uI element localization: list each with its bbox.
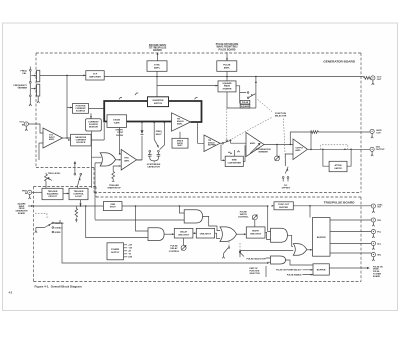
- svg-text:ONE-SHOT: ONE-SHOT: [200, 233, 212, 235]
- svg-text:BOARD: BOARD: [373, 275, 381, 278]
- wire note to pulse ampl: [226, 52, 228, 61]
- buffer 2 A14: [313, 264, 329, 275]
- pulse selector switch S8: [222, 242, 244, 259]
- vernier arrow through ampl: [250, 144, 260, 154]
- svg-text:SELECTOR: SELECTOR: [250, 273, 261, 275]
- svg-text:OFFSET: OFFSET: [282, 187, 291, 189]
- svg-text:COM: COM: [128, 257, 133, 259]
- free run switch S4: [74, 162, 82, 189]
- trigger control logic A6: [69, 188, 88, 199]
- freq cal pot R2: [31, 70, 40, 82]
- label sync out: [377, 204, 383, 208]
- svg-text:PULSE SELECTOR: PULSE SELECTOR: [247, 259, 267, 261]
- vertical feed to or in1: [91, 131, 93, 188]
- trig level pot R5: [45, 173, 52, 188]
- and gate G7 inputs: [266, 258, 271, 263]
- arrow into negative source: [68, 139, 71, 141]
- svg-text:Figure 4-1. Overall Block Dia: Figure 4-1. Overall Block Diagram: [35, 285, 83, 289]
- wire squaring to logic: [63, 193, 69, 195]
- and gate G3: [148, 228, 164, 241]
- label 600 ohm out: [376, 130, 382, 135]
- svg-text:SHAPER: SHAPER: [223, 87, 232, 90]
- svg-text:CONVERTER: CONVERTER: [227, 162, 241, 164]
- one shot output wire: [122, 206, 271, 232]
- svg-text:TRIG LEVEL: TRIG LEVEL: [48, 173, 61, 175]
- arrow into sensor top: [90, 116, 92, 119]
- wire VCG in to input ampl: [28, 124, 43, 133]
- wire shaper bottom stub: [226, 92, 228, 108]
- wire one-shot to or gate: [215, 233, 221, 238]
- function selector linkage dashes to switch: [228, 118, 272, 142]
- note: pulse on mode to main board: [373, 266, 383, 278]
- square wave shaper U3: [218, 81, 236, 92]
- feedback wire above output ampl: [290, 132, 370, 145]
- delay one-shot A9: [174, 228, 193, 238]
- svg-text:UATOR: UATOR: [334, 167, 342, 170]
- svg-text:AMPL: AMPL: [250, 142, 256, 145]
- svg-text:START/STOP: START/STOP: [107, 186, 121, 189]
- trig ampl output wire up to loop: [137, 159, 142, 161]
- svg-text:ONE-SHOT: ONE-SHOT: [250, 233, 262, 235]
- svg-text:ONE: ONE: [110, 204, 115, 206]
- svg-text:CONTROL: CONTROL: [238, 217, 249, 219]
- function selector linkage to dc offset: [284, 119, 286, 166]
- svg-text:SWITCH: SWITCH: [154, 103, 163, 105]
- note: square wave from generator board: [16, 202, 29, 215]
- pulse delay control pot R8: [169, 238, 187, 253]
- svg-text:GENERATOR BOARD: GENERATOR BOARD: [323, 60, 355, 64]
- svg-text:NEGATIVE: NEGATIVE: [75, 136, 86, 139]
- svg-text:VCF: VCF: [93, 74, 98, 76]
- label hysteresis capacitor: [147, 164, 161, 169]
- triangle buffer U8: [204, 135, 220, 152]
- pot terminal circles: [29, 69, 31, 71]
- svg-text:WAVE: WAVE: [224, 85, 231, 88]
- label GCV OUT: [377, 77, 382, 82]
- power supply PS1: [107, 243, 124, 260]
- wire VCF branch down to current sources: [67, 75, 73, 138]
- wire space ratio mult stub: [179, 132, 181, 139]
- svg-text:AMPL: AMPL: [154, 66, 161, 69]
- pulse label box: [240, 100, 250, 104]
- and gate G7: [271, 256, 286, 264]
- frequency vernier label: [14, 85, 28, 90]
- arrow into shaper: [216, 85, 219, 87]
- svg-text:DELAY: DELAY: [170, 247, 178, 250]
- label VCG IN: [19, 122, 24, 127]
- pulse ampl U2: [217, 61, 237, 72]
- function switch S5 triangle/sine/square: [220, 139, 246, 144]
- wire delay to one-shot: [193, 232, 196, 234]
- svg-text:SQUARING: SQUARING: [47, 193, 59, 196]
- wire negative source to loop: [91, 123, 104, 140]
- svg-text:BUFFER: BUFFER: [317, 270, 326, 272]
- or gate G6: [293, 244, 307, 256]
- svg-text:AMPL: AMPL: [49, 138, 55, 141]
- svg-text:ATTEN: ATTEN: [335, 164, 342, 167]
- or gate G6 input wire: [240, 250, 293, 257]
- svg-text:DELAY: DELAY: [180, 230, 188, 233]
- arrow into inverter switch: [169, 100, 172, 102]
- connector J9: [371, 241, 382, 249]
- svg-text:PULSE: PULSE: [242, 102, 249, 104]
- svg-text:CIRCUIT: CIRCUIT: [48, 196, 57, 198]
- svg-text:SQUARE: SQUARE: [222, 82, 232, 85]
- space ratio mult box A4: [172, 138, 188, 148]
- main timing loop thick wire: [104, 101, 201, 122]
- svg-text:OUT: OUT: [376, 133, 381, 135]
- labels delayed double norm: [55, 222, 64, 234]
- connector J7: [371, 218, 382, 226]
- wire trigger logic output down to bus: [80, 200, 82, 206]
- svg-text:SQUARE WAVE: SQUARE WAVE: [149, 44, 167, 47]
- connector J10: [371, 253, 382, 261]
- svg-text:PULSE ON POWER SELECT: PULSE ON POWER SELECT: [276, 270, 302, 272]
- pulse/square switch output bus: [227, 77, 256, 109]
- and gate G2 output route to or gate: [203, 216, 221, 230]
- svg-text:SENSOR: SENSOR: [89, 127, 98, 129]
- svg-text:VERNIER: VERNIER: [258, 151, 268, 153]
- wire trig in to squaring: [32, 191, 42, 193]
- svg-text:DELAYED: DELAYED: [55, 222, 64, 225]
- connector J5 50 ohm output: [370, 147, 374, 156]
- and gate G2: [184, 210, 202, 223]
- vertical feed to or in2 / trig logic bus: [94, 163, 96, 220]
- svg-text:ATTENUATION: ATTENUATION: [255, 148, 270, 151]
- trig ampl lower input resistor R4: [112, 166, 121, 181]
- and gate G5: [271, 228, 288, 242]
- svg-text:POWER: POWER: [111, 249, 120, 251]
- arrow up to note: [157, 53, 159, 56]
- wire square feed to switch: [226, 109, 228, 140]
- svg-text:CONTROL: CONTROL: [169, 251, 180, 253]
- main output wire: [308, 148, 370, 150]
- negative current source A3: [71, 134, 92, 146]
- power supply output stubs: [124, 245, 133, 259]
- trig/pulse board dashed outline: [34, 187, 362, 282]
- svg-text:LOGIC: LOGIC: [75, 196, 82, 198]
- svg-text:INVERTER: INVERTER: [153, 100, 164, 102]
- connector J4 aux out: [370, 129, 374, 138]
- or gate G6 output wire: [306, 249, 312, 251]
- and gate G5 output: [287, 235, 293, 246]
- amplitude pot R6: [275, 144, 280, 161]
- wire waveform mark on loop top: [119, 97, 122, 99]
- buffer 1 output wires to connectors: [330, 220, 371, 253]
- delayed/double switch S7: [35, 222, 54, 233]
- svg-text:MULT: MULT: [177, 145, 183, 147]
- wire pulse ampl to shaper: [226, 71, 228, 81]
- svg-text:PULSE ENABLE: PULSE ENABLE: [287, 273, 302, 276]
- delayed/double linkage dashes: [35, 214, 47, 220]
- svg-text:SHOT: SHOT: [110, 207, 117, 209]
- label attenuation vernier: [255, 148, 270, 154]
- one shot A8: [103, 202, 122, 211]
- resistor R1: [364, 77, 372, 80]
- switch S1 pulse/square contacts: [247, 92, 255, 99]
- function selector linkage dashes (upper): [258, 100, 273, 112]
- label trig in: [22, 190, 28, 195]
- wire lower input stub: [39, 143, 43, 160]
- svg-text:AMPL: AMPL: [295, 149, 301, 152]
- dc offset switch S6: [282, 154, 293, 182]
- svg-text:PULSE BOARD: PULSE BOARD: [219, 48, 236, 51]
- VCF amplifier U4: [86, 71, 104, 80]
- attenuation vernier ampl U9: [246, 133, 264, 157]
- sync ampl U1: [147, 61, 167, 72]
- wire inverter node to shaper input: [157, 85, 218, 87]
- svg-text:SUPPLY: SUPPLY: [111, 252, 120, 254]
- wire sync out buffer to connector: [293, 205, 371, 207]
- inverter switch S2: [148, 97, 169, 107]
- label freq mult: [156, 131, 162, 136]
- or gate G1: [100, 153, 115, 166]
- resistor R10: [75, 206, 78, 222]
- triangle ampl U6: [172, 113, 191, 131]
- wires labels to buffer 2: [303, 270, 314, 275]
- output ampl U10: [293, 139, 308, 160]
- freq vernier pot R3: [31, 84, 40, 96]
- square label box: [240, 104, 250, 108]
- wire square wave bus L1: [28, 205, 103, 207]
- svg-text:PULSE: PULSE: [223, 64, 231, 66]
- one-shot A10: [196, 228, 214, 238]
- arrow into positive current source: [70, 107, 73, 109]
- label trigger start/stop: [107, 185, 121, 190]
- svg-text:GATE: GATE: [114, 121, 120, 124]
- wire pots to VCF amplifier: [40, 74, 86, 76]
- wire sync ampl to note: [157, 53, 159, 61]
- pulse width control pot R9: [238, 211, 258, 227]
- svg-text:DIODE: DIODE: [113, 119, 120, 121]
- svg-text:NORM: NORM: [55, 232, 61, 234]
- wire sync ampl input from inverter node: [156, 71, 158, 97]
- wire width one-shot to and A: [265, 232, 271, 239]
- note: square wave to trigger board: [149, 44, 167, 52]
- arrow into VCF: [83, 75, 86, 77]
- or output to trig ampl: [116, 159, 122, 161]
- arrow into pulse ampl: [226, 58, 228, 61]
- positive current source A1: [73, 104, 89, 114]
- buffer 1 input wires: [309, 206, 311, 218]
- label 50 ohm output: [376, 147, 385, 152]
- hysteresis capacitors C1 C2: [148, 150, 160, 162]
- resistor R7: [311, 131, 319, 134]
- current source sensor A2: [86, 119, 102, 131]
- wire delayed switch buses: [54, 223, 268, 263]
- svg-text:VERNIER: VERNIER: [17, 87, 27, 89]
- trig in connector J3: [28, 190, 32, 199]
- labels into buffer 2: [276, 270, 302, 277]
- label dc offset: [282, 185, 291, 190]
- svg-text:WAVE FROM TRIG/: WAVE FROM TRIG/: [216, 46, 237, 49]
- svg-text:BOARD: BOARD: [153, 49, 162, 52]
- note: pulse or square wave from trigger board: [216, 43, 239, 51]
- svg-text:OUT: OUT: [377, 79, 382, 81]
- GCV bus wire: [104, 76, 363, 78]
- svg-text:PART OF: PART OF: [250, 267, 259, 270]
- or gate G4: [220, 227, 237, 242]
- svg-text:BUFFER: BUFFER: [208, 145, 216, 147]
- svg-text:BOARD: BOARD: [18, 212, 26, 215]
- diode gate CR1: [107, 115, 127, 128]
- wire loop to triangle buffer: [198, 122, 204, 144]
- svg-text:AMPL: AMPL: [177, 122, 183, 125]
- svg-text:TO TRIG/PULSE: TO TRIG/PULSE: [149, 48, 167, 50]
- start stop diode CR2: [141, 130, 144, 134]
- wire or gate to width one-shot: [237, 233, 247, 235]
- width one-shot A11: [246, 227, 265, 238]
- or gate input wires: [92, 157, 103, 163]
- attenuator AT1: [329, 161, 347, 171]
- svg-text:AMPLIFIER: AMPLIFIER: [89, 76, 101, 79]
- attenuator bypass dashed box: [321, 145, 348, 150]
- vertical bus from logic to and gate: [86, 206, 148, 238]
- connector J6 sync out: [371, 204, 375, 213]
- wire G3 to delay one-shot: [164, 233, 174, 235]
- trig ampl input arrows: [119, 153, 121, 155]
- svg-text:CAL: CAL: [22, 72, 27, 75]
- svg-text:4-2: 4-2: [9, 292, 13, 295]
- wire output tap to feedback: [310, 132, 312, 149]
- wire start/stop diode branch: [137, 123, 142, 161]
- label part of function selector: [250, 267, 261, 275]
- pot wiper line: [29, 67, 31, 102]
- svg-text:AMPL: AMPL: [124, 159, 130, 162]
- wire ampl to negative source: [63, 137, 71, 139]
- svg-text:SINE: SINE: [232, 159, 238, 161]
- buffer 2 output wire: [329, 267, 368, 269]
- svg-text:SELECTOR: SELECTOR: [275, 115, 287, 117]
- connector J1 GCV OUT: [371, 76, 375, 85]
- svg-text:WIDTH: WIDTH: [252, 230, 259, 232]
- trigger squaring circuit A5: [42, 188, 63, 199]
- wire waveform mark square: [135, 93, 138, 95]
- svg-text:AMPL: AMPL: [224, 66, 231, 69]
- ground arrow below pots: [29, 96, 40, 106]
- svg-text:OUTPUT: OUTPUT: [376, 149, 385, 151]
- junction dots on GCV bus: [156, 76, 158, 78]
- VCG input ampl U5 (triangle): [43, 128, 63, 148]
- svg-text:BUFFER: BUFFER: [279, 207, 288, 209]
- freq mult switch S3: [153, 122, 165, 150]
- and gate G7 output to buffer2: [286, 260, 314, 265]
- svg-text:SOURCE: SOURCE: [76, 142, 86, 144]
- L2 wire trig logic to and gate: [54, 220, 185, 223]
- VCG IN connector J2: [24, 122, 28, 131]
- label start/stop diode: [115, 129, 123, 137]
- divider line for selector labels: [265, 266, 267, 277]
- svg-text:BUFFER: BUFFER: [317, 237, 326, 239]
- svg-text:SOURCE: SOURCE: [76, 111, 86, 113]
- generator board dashed outline: [36, 53, 361, 193]
- freq cal label: [21, 71, 28, 76]
- svg-text:CAPACITOR: CAPACITOR: [147, 166, 160, 169]
- svg-text:TRIG/PULSE BOARD: TRIG/PULSE BOARD: [324, 201, 356, 205]
- svg-text:ONE-SHOT: ONE-SHOT: [178, 234, 190, 236]
- svg-text:MULT: MULT: [156, 134, 162, 136]
- wire ampl to output ampl: [264, 144, 293, 146]
- sine converter A7: [225, 156, 243, 166]
- trig ampl U7 (triangle): [121, 150, 136, 171]
- connector J8: [371, 230, 382, 238]
- bypass contacts: [322, 149, 324, 151]
- shaper output wire to pulse/square switch: [236, 86, 246, 103]
- arrow into sync buffer: [272, 205, 274, 207]
- wires to attenuator: [323, 149, 351, 166]
- svg-text:SYNC OUT: SYNC OUT: [278, 204, 290, 206]
- wire diode gate to trig ampl top input: [120, 128, 122, 154]
- svg-text:SYNC: SYNC: [154, 64, 160, 66]
- function selector label: [275, 113, 287, 118]
- sync out buffer A12: [274, 202, 293, 210]
- wire positive source to sensor and loop: [89, 108, 105, 118]
- wire waveform mark near loop right: [195, 97, 198, 99]
- svg-text:PULSE OR SQUARE: PULSE OR SQUARE: [216, 43, 239, 46]
- buffer 1 A13: [313, 218, 331, 257]
- wire sine converter taps: [221, 145, 225, 161]
